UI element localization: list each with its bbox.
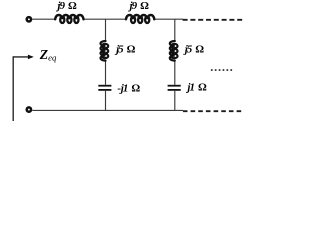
svg-text:j5Ω: j5Ω (183, 43, 205, 55)
svg-text:j9Ω: j9Ω (55, 0, 77, 12)
svg-text:j5Ω: j5Ω (114, 44, 136, 56)
svg-text:Zeq: Zeq (39, 47, 57, 62)
svg-text:j1Ω: j1Ω (185, 81, 207, 93)
svg-text:j9Ω: j9Ω (128, 0, 150, 12)
svg-text:-j1Ω: -j1Ω (117, 83, 140, 95)
